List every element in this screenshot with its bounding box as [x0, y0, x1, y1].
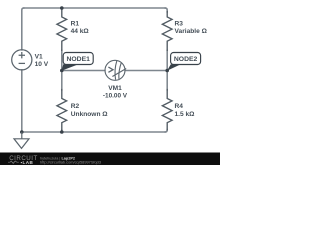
- resistor R2: [57, 90, 67, 132]
- svg-text:Variable Ω: Variable Ω: [175, 28, 208, 35]
- wire bottom horizontal: [22, 131, 165, 133]
- svg-text:Unknown Ω: Unknown Ω: [71, 111, 109, 118]
- svg-text:http://circuitlab.com/cqr58997: http://circuitlab.com/cqr58997Sfqd3: [40, 160, 101, 165]
- junction dot R2 bottom: [60, 130, 64, 134]
- label VM1 value: [103, 85, 128, 99]
- wire R4 bottom: [165, 130, 167, 133]
- svg-text:R4: R4: [175, 103, 184, 110]
- wire R1 bottom to NODE1: [61, 50, 63, 70]
- footer user / title text: [40, 156, 101, 164]
- label R1 value: [71, 20, 90, 35]
- voltmeter VM1: [105, 60, 126, 80]
- wire R2 bottom: [61, 130, 63, 132]
- resistor R1: [57, 8, 67, 50]
- svg-text:R2: R2: [71, 103, 80, 110]
- wire NODE2 to R4: [166, 71, 168, 91]
- wire middle left (NODE1 to VM1): [62, 70, 105, 72]
- junction dot bottom left: [20, 130, 24, 134]
- svg-text:R3: R3: [175, 20, 184, 27]
- resistor R4: [162, 90, 172, 130]
- label R3 value: [175, 20, 208, 35]
- wire R3 top stub: [165, 8, 167, 12]
- resistor R3: [162, 12, 172, 51]
- wire NODE1 to R2: [61, 71, 63, 91]
- svg-text:R1: R1: [71, 20, 80, 27]
- label V1 value: [35, 53, 49, 68]
- svg-text:1.5 kΩ: 1.5 kΩ: [175, 111, 196, 118]
- svg-text:V1: V1: [35, 53, 43, 60]
- wire V1 bottom vertical: [21, 70, 23, 132]
- voltage source V1: [12, 50, 32, 70]
- footer bar: [0, 153, 220, 166]
- junction node NODE2: [165, 69, 169, 73]
- wire middle right (VM1 to NODE2): [125, 70, 167, 72]
- footer CircuitLab logo: [8, 155, 38, 165]
- svg-text:▪LAB: ▪LAB: [21, 160, 34, 165]
- svg-text:NODE2: NODE2: [174, 56, 198, 63]
- svg-text:NODE1: NODE1: [66, 56, 90, 63]
- svg-text:-10.00 V: -10.00 V: [103, 92, 128, 99]
- wire R3 bottom to NODE2: [166, 50, 168, 70]
- ground: [14, 132, 29, 148]
- wire V1 top vertical: [22, 8, 24, 50]
- wire top horizontal: [24, 7, 165, 9]
- node NODE2 label: [167, 53, 201, 71]
- junction dot top R1: [60, 6, 64, 10]
- label R2 value: [71, 103, 109, 118]
- svg-text:10 V: 10 V: [35, 61, 49, 68]
- svg-text:VM1: VM1: [108, 85, 122, 92]
- junction node NODE1: [60, 69, 64, 73]
- svg-text:44 kΩ: 44 kΩ: [71, 28, 90, 35]
- label R4 value: [175, 103, 196, 118]
- node NODE1 label: [62, 53, 94, 71]
